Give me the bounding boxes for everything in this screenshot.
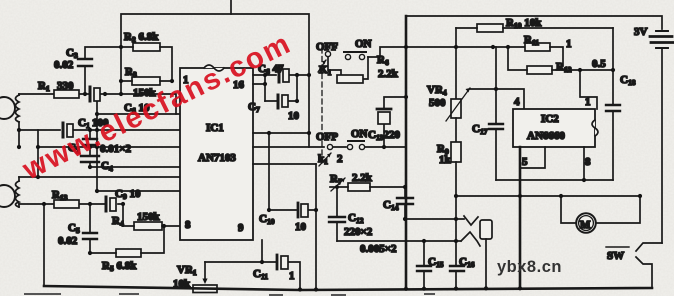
resistor R11 [525, 43, 550, 51]
svg-text:ON: ON [355, 38, 372, 50]
svg-text:IC1: IC1 [206, 122, 224, 134]
wire row y147 switch [253, 146, 406, 148]
wire wiper row y89 [470, 89, 524, 109]
wire C11 row [205, 262, 300, 289]
wire row y191 [97, 190, 183, 192]
wire row y164 [253, 163, 316, 165]
svg-text:8: 8 [185, 219, 191, 231]
svg-text:C9 10: C9 10 [115, 188, 141, 201]
svg-text:0.5: 0.5 [592, 58, 606, 70]
resistor R6 [328, 57, 368, 79]
capacitor C5 [89, 204, 91, 253]
svg-text:10: 10 [288, 110, 300, 122]
svg-text:1: 1 [289, 270, 295, 282]
capacitor C17 [489, 124, 503, 129]
resistor R4 150k [134, 222, 162, 230]
svg-text:5: 5 [522, 156, 528, 168]
wire top feedback box [121, 14, 309, 147]
svg-text:9: 9 [238, 222, 244, 234]
wire R10 to VR4 [455, 28, 457, 99]
potentiometer VR1 [193, 285, 217, 293]
resistor R9 [455, 118, 457, 142]
svg-text:C13220: C13220 [368, 129, 400, 142]
wire y241 [337, 240, 461, 242]
wire row C6 [253, 74, 309, 76]
wire y47 [406, 46, 525, 48]
wire row C10 [269, 133, 316, 289]
capacitor C14 [404, 187, 406, 219]
svg-text:150k: 150k [137, 211, 161, 223]
svg-text:330: 330 [57, 80, 74, 92]
svg-text:IC2: IC2 [541, 113, 559, 125]
wire pin5 bracket [520, 147, 545, 168]
wire top stub [230, 0, 232, 14]
svg-text:0.02: 0.02 [58, 235, 78, 247]
capacitor C13 [384, 97, 406, 147]
capacitor C15 [423, 241, 425, 289]
capacitor C1 [62, 123, 65, 137]
switch SW [636, 243, 662, 251]
wire pin1 bracket [580, 70, 597, 109]
resistor R13 [54, 200, 79, 208]
wire left border [43, 204, 45, 286]
svg-text:4: 4 [514, 96, 520, 108]
capacitor C12 [336, 187, 338, 241]
svg-text:R2 6.8k: R2 6.8k [124, 31, 159, 44]
svg-text:10: 10 [295, 221, 307, 233]
wire row y204 [19, 204, 123, 226]
svg-text:1: 1 [566, 38, 572, 50]
wire K1 to right block [368, 47, 406, 57]
capacitor C10 [297, 203, 300, 217]
wire row y177 [19, 130, 183, 177]
wire row y114 [97, 94, 183, 191]
svg-text:0.02: 0.02 [54, 59, 74, 71]
svg-text:1: 1 [585, 96, 591, 108]
svg-text:220×2: 220×2 [344, 226, 373, 238]
scan noise bottom edge [25, 294, 434, 295]
wire y219 [405, 218, 464, 220]
transformer head T1 [0, 97, 15, 119]
svg-text:0.005×2: 0.005×2 [360, 243, 397, 255]
wire row y167 [90, 166, 183, 168]
resistor R2 [133, 43, 160, 51]
erase head HE [480, 220, 492, 239]
record head contacts [464, 216, 478, 225]
svg-text:R10 10k: R10 10k [506, 17, 542, 30]
ganged switch dashed link [321, 48, 323, 163]
svg-text:ON: ON [351, 128, 368, 140]
potentiometer VR4 [451, 99, 461, 118]
resistor R1 [54, 90, 79, 98]
wire pin5 bold [519, 147, 522, 288]
svg-text:3V: 3V [634, 26, 648, 38]
resistor R3 [132, 77, 160, 85]
wire IC1 pin9 [261, 240, 263, 262]
wire row y196 [456, 195, 640, 197]
wire row y147 [38, 146, 183, 148]
svg-text:M: M [580, 219, 591, 231]
wire row y94 [19, 94, 176, 114]
resistor R5 [116, 249, 141, 257]
potentiometer R7 [348, 183, 370, 191]
svg-text:1k: 1k [439, 154, 452, 166]
svg-text:ybx8.cn: ybx8.cn [497, 258, 562, 276]
transformer head T2 [0, 185, 15, 207]
svg-text:R5 6.8k: R5 6.8k [102, 260, 137, 273]
wire pin8 [583, 147, 585, 180]
capacitor C16 [450, 266, 464, 271]
capacitor C2 [89, 130, 91, 147]
capacitor C6 [278, 68, 281, 82]
capacitor C3 [85, 47, 121, 94]
svg-text:AN7103: AN7103 [198, 152, 236, 164]
svg-text:8: 8 [585, 156, 591, 168]
resistor R12 [527, 66, 552, 74]
wire pin16 stub [253, 75, 265, 101]
op-amp IC1 [180, 68, 253, 240]
capacitor C7 [265, 75, 297, 101]
svg-text:OFP: OFP [316, 131, 338, 143]
wire row y180 [496, 179, 613, 181]
capacitor C4 [89, 147, 91, 167]
svg-text:AN6660: AN6660 [527, 130, 565, 142]
motor M1 [576, 213, 596, 233]
svg-text:2.2k: 2.2k [352, 172, 373, 184]
resistor R10 [477, 24, 503, 32]
ground rail bottom [44, 286, 652, 290]
svg-text:2: 2 [337, 153, 343, 165]
capacitor coupling after R1 [89, 87, 92, 101]
capacitor C18 [612, 28, 614, 180]
wire row y130 [19, 129, 183, 131]
IC U2 [513, 109, 595, 147]
wire row y133 [253, 132, 309, 134]
svg-text:SW: SW [607, 250, 624, 262]
capacitor C9 [105, 197, 108, 211]
svg-text:2.2k: 2.2k [378, 68, 399, 80]
right block border [406, 16, 662, 29]
svg-text:500: 500 [429, 97, 446, 109]
wire C17 branch [495, 47, 497, 180]
capacitor C11 [276, 255, 279, 269]
